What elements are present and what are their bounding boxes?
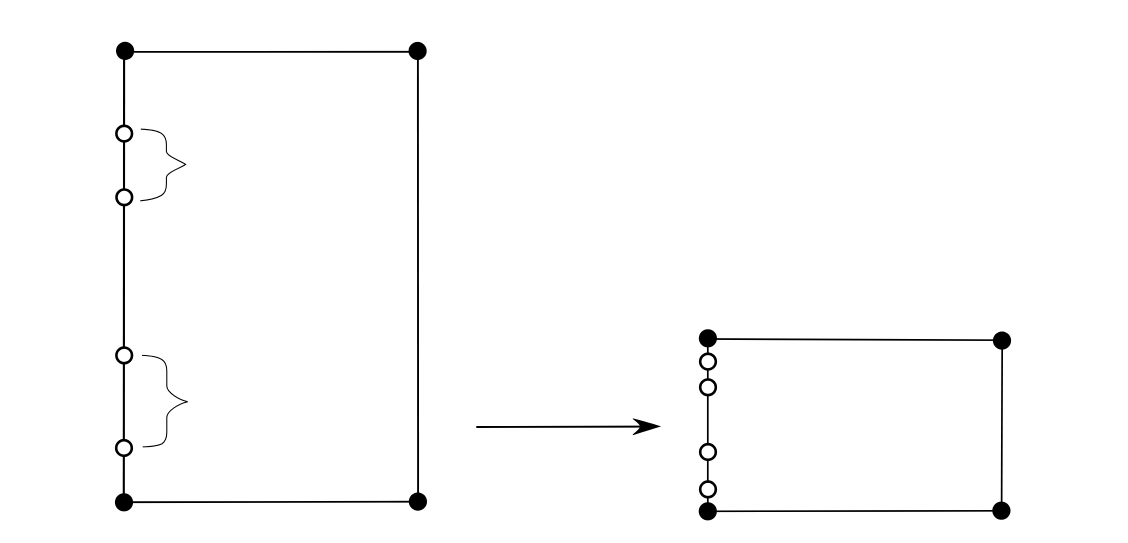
node: open point 1 on large rectangle left edge [116, 126, 132, 142]
wire: large rectangle bottom edge [124, 501, 418, 504]
node: open point 4 on small rectangle left edge [700, 482, 716, 498]
node: open point 4 on large rectangle left edge [116, 440, 132, 456]
node: open point 3 on small rectangle left edge [700, 444, 716, 460]
node: open point 2 on large rectangle left edge [117, 190, 133, 206]
wire: arrow shaft [476, 426, 642, 428]
arrowhead of mapping arrow [633, 419, 660, 435]
wire: large rectangle top edge [125, 51, 418, 53]
brace: lower curly brace marking second pair of points [142, 355, 188, 447]
node: small rectangle top-left corner dot [699, 329, 717, 347]
node: large rectangle bottom-left corner dot [115, 493, 133, 511]
node: large rectangle top-left corner dot [116, 42, 134, 60]
node: large rectangle top-right corner dot [409, 42, 427, 60]
node: small rectangle bottom-right corner dot [992, 502, 1010, 520]
wire: small rectangle top edge [708, 339, 1002, 340]
node: open point 3 on large rectangle left edge [116, 348, 132, 364]
node: large rectangle bottom-right corner dot [409, 493, 427, 511]
wire: large rectangle left edge [123, 52, 125, 502]
node: open point 2 on small rectangle left edge [700, 380, 716, 396]
brace: upper curly brace marking first pair of points [140, 129, 185, 201]
node: small rectangle top-right corner dot [993, 332, 1011, 350]
wire: small rectangle bottom edge [708, 510, 1002, 513]
node: small rectangle bottom-left corner dot [699, 502, 717, 520]
node: open point 1 on small rectangle left edge [700, 354, 716, 370]
wire: small rectangle right edge [1001, 341, 1004, 511]
wire: small rectangle left edge [707, 338, 709, 511]
wire: large rectangle right edge [417, 52, 419, 502]
